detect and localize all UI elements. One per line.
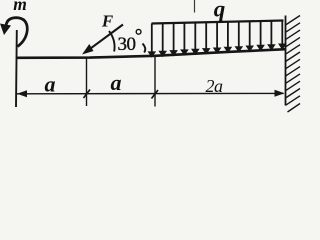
svg-text:q: q <box>214 0 226 22</box>
angle arc 30deg <box>109 31 115 52</box>
beam <box>16 49 286 58</box>
dimension tick at x=86 <box>86 59 88 107</box>
wall hatching <box>286 16 301 113</box>
svg-text:a: a <box>45 72 56 97</box>
moment m arc <box>6 18 27 47</box>
wall vertical line <box>285 16 287 106</box>
moment arrowhead <box>0 24 11 36</box>
force F arrow <box>86 25 123 52</box>
small tick above load line <box>194 0 196 13</box>
svg-text:F: F <box>101 12 114 31</box>
dim left arrowhead <box>17 90 27 97</box>
dim right arrowhead <box>275 90 285 97</box>
svg-text:30: 30 <box>118 34 136 55</box>
svg-text:a: a <box>111 70 122 95</box>
dimension line <box>17 92 284 94</box>
dim slash at x=155 <box>152 90 159 99</box>
distributed load q top line <box>152 21 284 24</box>
distributed load arrows <box>148 21 287 58</box>
dimension tick at x=155 <box>154 57 156 107</box>
svg-text:2a: 2a <box>206 76 224 96</box>
left end vertical line <box>15 30 18 107</box>
dim slash at x=86 <box>84 90 91 99</box>
svg-text:m: m <box>13 0 27 14</box>
